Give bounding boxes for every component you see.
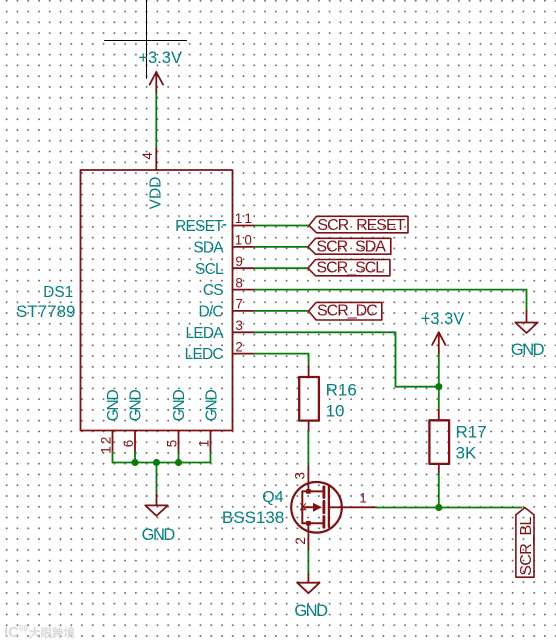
svg-text:SCR_DC: SCR_DC <box>317 303 377 320</box>
pin 12 number <box>99 434 114 453</box>
svg-text:R16: R16 <box>326 381 357 400</box>
svg-text:DS1: DS1 <box>43 284 73 301</box>
svg-text:LEDC: LEDC <box>185 346 224 363</box>
GND text (left) <box>142 526 176 544</box>
svg-text:1: 1 <box>197 440 212 448</box>
svg-text:3K: 3K <box>456 443 477 462</box>
svg-text:6: 6 <box>121 440 136 448</box>
svg-text:SCR_SDA: SCR_SDA <box>316 238 386 255</box>
wire LEDC to R16 <box>255 354 309 367</box>
wire +3.3V to junction to R17 <box>438 355 440 411</box>
svg-text:RESET: RESET <box>175 218 224 235</box>
Q4 value BSS138 <box>222 508 284 527</box>
svg-text:SCR_SCL: SCR_SCL <box>316 260 384 277</box>
junction gate/R17 <box>435 504 442 511</box>
Q4 pin 3 number <box>292 472 307 480</box>
+3.3V value text (right) <box>421 310 465 328</box>
Q4 pin 2 number <box>293 537 308 545</box>
global label SCR_RESET <box>309 216 408 233</box>
value ST7789 <box>16 302 76 321</box>
svg-text:GND: GND <box>203 389 220 421</box>
svg-text:11: 11 <box>235 211 255 226</box>
svg-text:3: 3 <box>292 472 307 480</box>
GND text (right) <box>511 341 545 359</box>
svg-text:D/C: D/C <box>199 304 224 321</box>
cursor crosshair <box>105 0 187 79</box>
pin name GND (pin12) <box>105 389 122 421</box>
svg-text:LEDA: LEDA <box>186 325 225 342</box>
power +3.3V (right) <box>432 332 445 354</box>
transistor Q4 BSS138 <box>291 467 376 550</box>
global label SCR_BL (vertical) <box>516 508 534 578</box>
svg-text:GND: GND <box>511 341 545 359</box>
svg-text:GND: GND <box>171 389 188 421</box>
global label SCR_DC <box>309 302 382 320</box>
pin 9 SCL <box>233 267 255 269</box>
R17 value 3K <box>456 443 477 462</box>
resistor R17 <box>438 410 440 473</box>
wire +3.3V to pin 4 <box>155 94 157 149</box>
pin name GND (pin6) <box>128 389 145 421</box>
svg-text:2: 2 <box>293 537 308 545</box>
svg-text:BSS138: BSS138 <box>222 508 284 527</box>
pin 5 number <box>165 440 180 448</box>
svg-text:3: 3 <box>235 318 243 333</box>
wire pin10 to SCR_SDA <box>255 246 309 248</box>
pin name GND (pin5) <box>171 389 188 421</box>
reference DS1 <box>43 284 73 301</box>
svg-text:Q4: Q4 <box>262 489 283 506</box>
power GND (left) <box>145 495 167 516</box>
wire gate to junction to SCR_BL <box>377 507 522 509</box>
svg-text:10: 10 <box>235 233 254 248</box>
power GND (right) <box>515 311 537 333</box>
pin 8 CS <box>233 289 255 291</box>
svg-text:SCR_BL: SCR_BL <box>518 516 535 575</box>
svg-text:R17: R17 <box>456 423 487 442</box>
power GND (middle) <box>297 574 319 593</box>
bottom ground bus wires <box>113 452 211 495</box>
wire pin11 to SCR_RESET <box>255 225 310 227</box>
pin 10 SDA <box>233 246 255 248</box>
watermark <box>4 624 75 641</box>
wire R16 to Q4 drain <box>307 431 309 467</box>
svg-text:5: 5 <box>165 440 180 448</box>
Q4 reference <box>262 489 283 506</box>
svg-text:SCR_RESET: SCR_RESET <box>317 217 405 234</box>
pin 6 number <box>121 440 136 448</box>
R16 reference <box>326 381 357 400</box>
svg-text:4: 4 <box>140 152 155 160</box>
wire LEDA to +3.3V junction <box>255 332 439 386</box>
GND text (middle) <box>294 602 328 620</box>
svg-text:1: 1 <box>359 490 367 505</box>
global label SCR_SDA <box>308 238 391 254</box>
svg-text:GND: GND <box>142 526 176 544</box>
Q4 pin 1 number <box>359 490 367 505</box>
svg-text:CS: CS <box>203 282 223 299</box>
junction LEDA/+3.3V <box>435 383 442 390</box>
junction dots bottom bus <box>131 459 182 466</box>
svg-text:IC00大眼跨境: IC00大眼跨境 <box>4 624 75 641</box>
R16 value 10 <box>326 401 345 420</box>
pin name GND (pin1) <box>203 389 220 421</box>
pin 4 VDD <box>155 149 157 170</box>
wire R17 to gate net <box>438 474 440 508</box>
RESET pin overline tick <box>223 224 227 226</box>
svg-text:ST7789: ST7789 <box>16 302 76 321</box>
resistor R16 <box>308 366 310 431</box>
pin 4 number <box>140 152 155 160</box>
pin 11 RESET <box>233 225 255 227</box>
svg-text:VDD: VDD <box>147 177 164 210</box>
wire pin7 to SCR_DC <box>255 310 309 312</box>
pin 2 LEDC <box>233 353 255 355</box>
pin 1 number <box>197 440 212 448</box>
svg-text:GND: GND <box>105 389 122 421</box>
svg-text:+3.3V: +3.3V <box>421 310 465 328</box>
svg-text:7: 7 <box>235 297 243 312</box>
svg-text:12: 12 <box>99 434 114 453</box>
wire pin9 to SCR_SCL <box>255 267 309 269</box>
R17 reference <box>456 423 487 442</box>
+3.3V value text (top) <box>138 49 182 67</box>
power +3.3V (top) <box>150 72 163 94</box>
pin 3 LEDA <box>233 331 255 333</box>
svg-text:2: 2 <box>235 339 243 354</box>
svg-text:GND: GND <box>294 602 328 620</box>
IC U-DS1 body <box>81 170 233 431</box>
svg-text:9: 9 <box>235 254 243 269</box>
svg-text:+3.3V: +3.3V <box>138 49 182 67</box>
pin 7 D/C <box>233 310 255 312</box>
global label SCR_SCL <box>308 260 390 276</box>
svg-text:SDA: SDA <box>193 240 224 257</box>
svg-text:8: 8 <box>235 275 243 290</box>
Q4 gate hidden pin mark <box>300 504 306 510</box>
IC bottom pins 12,6,5,1 <box>113 431 211 453</box>
svg-text:10: 10 <box>326 401 345 420</box>
pin name VDD <box>147 177 164 210</box>
wire Q4 source to GND <box>307 550 309 574</box>
svg-text:SCL: SCL <box>195 261 224 278</box>
svg-text:GND: GND <box>128 389 145 421</box>
wire CS to right GND <box>255 290 527 311</box>
